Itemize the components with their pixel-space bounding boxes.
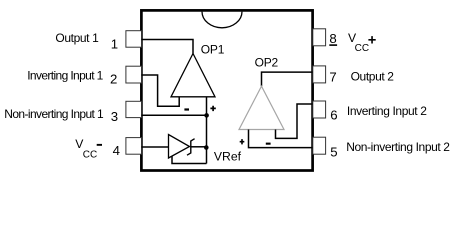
pin 4 box bbox=[126, 138, 142, 155]
wire pin4 to VRef diode anode bbox=[142, 146, 169, 148]
wire VRef feedback loop bbox=[172, 156, 207, 163]
svg-text:7: 7 bbox=[329, 70, 336, 85]
wire OP1 non-inverting input vertical bbox=[206, 97, 208, 164]
wire OP2 output to pin7 bbox=[262, 72, 313, 86]
svg-text:Output 2: Output 2 bbox=[351, 70, 395, 84]
svg-text:VRef: VRef bbox=[214, 149, 242, 163]
pin 6 box bbox=[313, 101, 326, 118]
svg-text:CC: CC bbox=[355, 43, 369, 54]
pin 3 box bbox=[126, 101, 142, 117]
OP2 minus sign bbox=[266, 143, 271, 145]
svg-text:5: 5 bbox=[330, 145, 337, 160]
svg-text:1: 1 bbox=[111, 36, 118, 51]
svg-text:6: 6 bbox=[330, 108, 337, 123]
svg-text:OP2: OP2 bbox=[255, 55, 279, 69]
svg-text:OP1: OP1 bbox=[201, 42, 225, 56]
svg-text:8: 8 bbox=[329, 31, 336, 46]
svg-text:3: 3 bbox=[111, 109, 118, 124]
zener cathode bar bbox=[187, 139, 195, 156]
svg-text:Non-inverting Input 1: Non-inverting Input 1 bbox=[4, 107, 104, 121]
OP1 minus sign bbox=[184, 108, 189, 110]
wire diode cathode to node B bbox=[191, 146, 207, 148]
svg-text:2: 2 bbox=[110, 72, 117, 87]
pin 7 box bbox=[313, 66, 326, 83]
pin 8 box bbox=[313, 29, 326, 46]
wire OP2 inverting input to pin6 bbox=[276, 104, 313, 138]
pin 5 box bbox=[313, 137, 326, 154]
pin 2 box bbox=[126, 66, 142, 83]
svg-text:4: 4 bbox=[113, 143, 120, 158]
pin 1 box bbox=[126, 31, 142, 48]
OP2 plus sign bbox=[240, 139, 245, 144]
op-amp OP2 triangle (gray) bbox=[239, 86, 284, 129]
zener diode VRef triangle bbox=[169, 135, 190, 159]
svg-text:Output 1: Output 1 bbox=[55, 31, 99, 45]
svg-text:CC: CC bbox=[83, 150, 97, 161]
svg-text:Inverting Input 2: Inverting Input 2 bbox=[347, 104, 427, 118]
wire OP2 non-inverting input to pin5 bbox=[249, 130, 313, 148]
node B junction dot bbox=[204, 145, 209, 150]
wire pin2 to OP1 inverting input bbox=[142, 75, 180, 106]
svg-text:Inverting Input 1: Inverting Input 1 bbox=[27, 68, 103, 82]
pin-1 notch (top-center semicircle) bbox=[202, 12, 242, 28]
svg-text:Non-inverting Input 2: Non-inverting Input 2 bbox=[346, 140, 450, 154]
OP1 plus sign bbox=[210, 106, 215, 111]
node A junction dot bbox=[204, 113, 209, 118]
op-amp OP1 triangle bbox=[171, 54, 215, 97]
wire pin1 to OP1 output (apex) bbox=[142, 40, 194, 54]
IC body U1 (8-pin DIP outline) bbox=[141, 10, 312, 170]
wire pin3 to node A bbox=[142, 114, 207, 116]
